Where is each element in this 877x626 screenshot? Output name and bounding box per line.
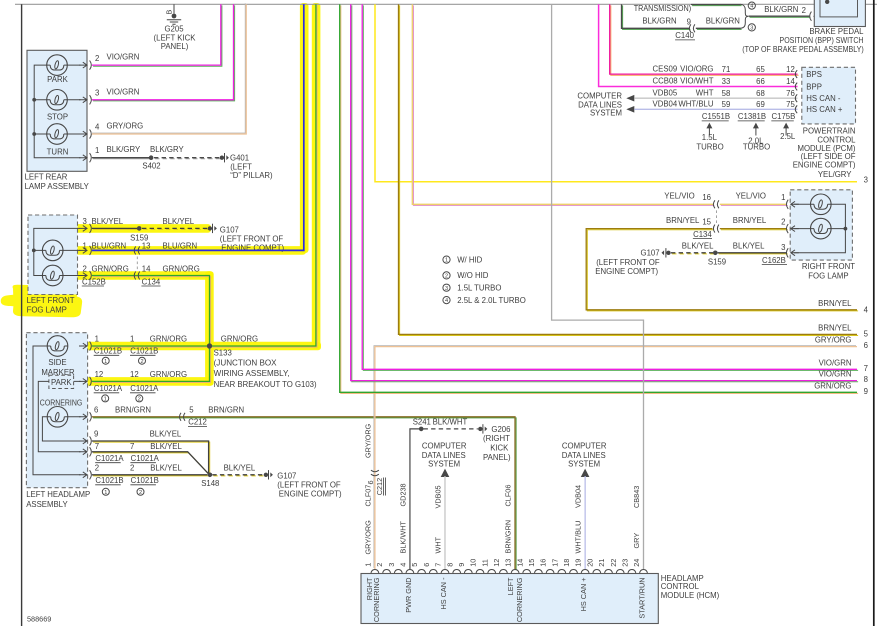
svg-text:4: 4 — [445, 298, 448, 304]
svg-text:59: 59 — [722, 100, 731, 109]
wire YEL/VIO to right fog pin 1 — [412, 4, 787, 205]
svg-text:ENGINE COMPT): ENGINE COMPT) — [793, 161, 856, 170]
C134 ladder dashes (right fog) — [716, 210, 718, 224]
svg-text:WHT: WHT — [696, 88, 714, 97]
svg-text:SYSTEM: SYSTEM — [568, 460, 600, 469]
svg-text:BLK/YEL: BLK/YEL — [150, 442, 182, 451]
svg-text:W/ HID: W/ HID — [457, 255, 482, 264]
svg-text:C1021A: C1021A — [95, 454, 124, 463]
svg-text:16: 16 — [539, 559, 548, 567]
svg-text:68: 68 — [756, 89, 765, 98]
svg-text:C1021B: C1021B — [131, 476, 159, 485]
svg-text:1: 1 — [364, 563, 373, 567]
wire WHT/BLU HCM pin 19 — [584, 476, 586, 569]
svg-text:2: 2 — [130, 464, 134, 473]
svg-text:YEL/GRY: YEL/GRY — [818, 170, 852, 179]
svg-text:VIO/GRN: VIO/GRN — [819, 358, 852, 367]
svg-text:BRN/YEL: BRN/YEL — [818, 324, 852, 333]
left border line — [21, 4, 23, 626]
highlighter band over GRN/ORG fog wire and S133 branches — [74, 3, 321, 386]
HCM pin numbers 1-24 — [364, 559, 642, 567]
svg-text:2.5L & 2.0L TURBO: 2.5L & 2.0L TURBO — [457, 296, 526, 305]
svg-text:1: 1 — [95, 335, 99, 344]
connector labels C1021A row7 — [95, 454, 159, 463]
note circle 3 at brace — [748, 24, 755, 32]
svg-text:BLK/GRY: BLK/GRY — [107, 145, 141, 154]
svg-text:GD238: GD238 — [399, 483, 408, 506]
svg-text:BRAKE PEDAL: BRAKE PEDAL — [809, 27, 864, 36]
arrow 2.5L — [780, 123, 796, 142]
svg-text:S402: S402 — [142, 161, 160, 170]
connector labels C1021A row12 — [94, 384, 159, 393]
svg-text:C1021B: C1021B — [95, 476, 123, 485]
svg-text:6: 6 — [94, 406, 98, 415]
inline connector C134 on BRN/YEL row — [693, 225, 719, 239]
svg-text:VDB05: VDB05 — [653, 88, 678, 97]
left rear lamp assembly box — [27, 50, 87, 171]
svg-text:S133: S133 — [214, 348, 232, 357]
junction dots inside rear lamp — [32, 98, 36, 102]
svg-text:SYSTEM: SYSTEM — [590, 109, 622, 118]
wire BLK/YEL dashed G107 to S159 (right) — [672, 253, 714, 255]
wire 8 VIO/GRN — [351, 4, 868, 384]
svg-text:VDB04: VDB04 — [653, 100, 678, 109]
svg-text:BLK/YEL: BLK/YEL — [224, 464, 256, 473]
svg-text:4: 4 — [864, 306, 869, 315]
splice S402 — [142, 155, 160, 170]
right border line — [873, 0, 875, 626]
svg-text:G107: G107 — [277, 471, 296, 480]
svg-text:C1021B: C1021B — [94, 347, 122, 356]
bulb fog lower — [42, 265, 63, 286]
svg-text:ASSEMBLY: ASSEMBLY — [26, 500, 68, 509]
svg-text:C1021A: C1021A — [130, 384, 159, 393]
wire BLU/GRN fog pin 1/13 up to top — [83, 4, 304, 250]
svg-text:FOG LAMP: FOG LAMP — [808, 272, 848, 281]
splice S159 — [130, 226, 148, 242]
powertrain control module box — [802, 67, 856, 124]
svg-text:2: 2 — [83, 265, 87, 274]
svg-text:1.5L TURBO: 1.5L TURBO — [457, 283, 501, 292]
wire BLK/GRY dashed S402 to G401 — [150, 145, 221, 159]
top border line — [15, 3, 877, 5]
svg-text:BPS: BPS — [806, 70, 822, 79]
svg-text:PWR GND: PWR GND — [404, 578, 413, 613]
svg-text:BLK/GRY: BLK/GRY — [150, 145, 184, 154]
svg-text:WIRING ASSEMBLY,: WIRING ASSEMBLY, — [214, 369, 290, 378]
internal ground wire of rear lamp — [34, 65, 80, 158]
svg-text:MODULE (HCM): MODULE (HCM) — [661, 591, 720, 600]
wire BLK/YEL headlamp pin 7 to S148 — [92, 442, 210, 476]
svg-text:588669: 588669 — [27, 615, 51, 624]
left headlamp assembly box — [26, 333, 87, 488]
svg-text:13: 13 — [142, 242, 151, 251]
svg-text:BLK/YEL: BLK/YEL — [150, 464, 182, 473]
svg-text:8: 8 — [445, 563, 454, 567]
svg-text:12: 12 — [95, 370, 104, 379]
inline connector C212 on BRN/GRN row — [180, 413, 208, 427]
ground G107 (left front of engine compt, lower) — [264, 470, 342, 499]
svg-text:VDB04: VDB04 — [574, 485, 583, 508]
svg-text:(LEFT: (LEFT — [230, 162, 252, 171]
note 3 1.5L TURBO — [443, 283, 502, 292]
svg-text:13: 13 — [504, 559, 513, 567]
svg-text:G107: G107 — [641, 249, 660, 258]
svg-text:GRY/ORG: GRY/ORG — [364, 423, 373, 458]
svg-text:2.5L: 2.5L — [780, 132, 796, 141]
svg-text:BRN/GRN: BRN/GRN — [115, 406, 151, 415]
svg-text:BLU/GRN: BLU/GRN — [163, 242, 198, 251]
svg-text:LEFT REAR: LEFT REAR — [25, 173, 68, 182]
svg-text:TURBO: TURBO — [743, 143, 770, 152]
wire BLK/GRN brace to BPP switch pin 2 — [749, 5, 811, 17]
wire BLK/GRN top branch to brace — [692, 5, 742, 7]
svg-text:2: 2 — [445, 274, 448, 280]
highlighter band over BLK/YEL fog ground wire — [74, 224, 211, 233]
HCM pin sockets 1-24 — [371, 570, 647, 574]
brake pedal position switch box — [814, 0, 865, 27]
wire BLK/YEL headlamp pin 2 to S148 — [92, 464, 209, 476]
svg-text:VIO/GRN: VIO/GRN — [107, 87, 140, 96]
svg-text:VIO/WHT: VIO/WHT — [680, 77, 714, 86]
svg-text:11: 11 — [480, 559, 489, 567]
bulb right fog lower — [811, 218, 832, 239]
note circles 1 and 2 (row 2) — [102, 488, 144, 496]
wire 5 BRN/YEL — [399, 4, 869, 338]
wire 4 BRN/YEL right fog feed — [586, 229, 868, 315]
svg-text:9: 9 — [94, 430, 98, 439]
svg-text:YEL/VIO: YEL/VIO — [664, 192, 694, 201]
ground G205 (left kick panel) — [154, 4, 197, 51]
svg-text:C1551B: C1551B — [702, 112, 730, 121]
svg-text:22: 22 — [609, 559, 618, 567]
svg-text:C1021B: C1021B — [130, 347, 158, 356]
svg-text:BLK/WHT: BLK/WHT — [399, 521, 408, 554]
bulb PARK (rear) — [47, 55, 69, 84]
svg-text:POSITION (BPP) SWITCH: POSITION (BPP) SWITCH — [780, 36, 864, 45]
note 4 2.5L and 2.0L TURBO — [443, 296, 526, 305]
wire VIO/GRN rear park pin 2 — [92, 4, 222, 66]
computer data lines arrow (WHT/BLU) — [626, 106, 634, 113]
svg-text:ENGINE COMPT): ENGINE COMPT) — [595, 267, 658, 276]
svg-text:GRN/ORG: GRN/ORG — [163, 265, 200, 274]
svg-text:G401: G401 — [230, 154, 249, 163]
svg-text:CONTROL: CONTROL — [661, 582, 700, 591]
svg-text:C212: C212 — [375, 478, 384, 495]
svg-text:BPP: BPP — [806, 82, 822, 91]
svg-text:(JUNCTION BOX: (JUNCTION BOX — [214, 359, 278, 368]
wire 3 YEL/GRY — [375, 4, 868, 184]
svg-text:3: 3 — [387, 563, 396, 567]
svg-text:BLK/YEL: BLK/YEL — [682, 242, 714, 251]
svg-text:C152B: C152B — [82, 277, 106, 286]
svg-text:“D” PILLAR): “D” PILLAR) — [230, 171, 273, 180]
svg-text:CORNERING: CORNERING — [40, 399, 83, 408]
svg-text:TURN: TURN — [47, 147, 69, 156]
svg-text:12: 12 — [786, 65, 795, 74]
wire GRN/ORG fog pin 2/14 down to S133 — [83, 265, 211, 345]
svg-text:BLU/GRN: BLU/GRN — [92, 242, 127, 251]
arrow 2.0L TURBO — [743, 123, 770, 152]
svg-text:1: 1 — [104, 359, 107, 365]
svg-text:1: 1 — [95, 146, 99, 155]
svg-text:BRN/YEL: BRN/YEL — [666, 216, 700, 225]
svg-text:S148: S148 — [201, 479, 219, 488]
svg-text:STOP: STOP — [47, 113, 68, 122]
svg-text:GRY: GRY — [632, 533, 641, 549]
svg-text:9: 9 — [864, 387, 868, 396]
headlamp pin sockets — [79, 341, 91, 350]
svg-text:C1021A: C1021A — [94, 384, 123, 393]
svg-text:GRY/ORG: GRY/ORG — [107, 122, 144, 131]
bulb right fog upper — [811, 194, 832, 215]
svg-text:3: 3 — [781, 243, 785, 252]
splice S133 and junction box labels — [207, 343, 317, 389]
svg-text:1: 1 — [104, 490, 107, 496]
wire GRN/ORG headlamp pin 1 row through S133 up to top — [92, 4, 317, 347]
svg-text:C134: C134 — [693, 230, 712, 239]
internal wires of left fog lamp — [34, 228, 81, 275]
svg-text:75: 75 — [786, 100, 795, 109]
connector label C162B — [762, 256, 787, 265]
connector label C175B — [771, 112, 795, 121]
HCM name label — [661, 574, 720, 600]
svg-text:FOG LAMP: FOG LAMP — [27, 306, 67, 315]
svg-text:2: 2 — [375, 563, 384, 567]
inline connector C134 on GRN/ORG row — [134, 272, 140, 280]
svg-text:CCB08: CCB08 — [653, 77, 678, 86]
svg-text:GRY/ORG: GRY/ORG — [364, 520, 373, 555]
svg-text:6: 6 — [366, 480, 375, 484]
left front fog lamp box — [28, 215, 78, 295]
svg-text:VIO/ORG: VIO/ORG — [680, 64, 713, 73]
svg-text:BLK/YEL: BLK/YEL — [92, 217, 124, 226]
wire BRN/YEL to right fog pin 2 (joins wire 4) — [666, 216, 788, 230]
svg-text:C212: C212 — [188, 418, 207, 427]
svg-text:20: 20 — [585, 559, 594, 567]
wire WHT VDB05 to PCM HS CAN - — [634, 88, 797, 98]
wire VIO/GRN rear stop pin 3 — [92, 4, 235, 101]
wire BLK/YEL S159 to right fog pin 3 — [682, 242, 788, 254]
computer data lines system (HS CAN +) — [562, 441, 607, 477]
note circles 1 and 2 (row 12) — [102, 395, 143, 403]
svg-text:1: 1 — [83, 242, 87, 251]
svg-text:(RIGHT: (RIGHT — [483, 434, 510, 443]
svg-text:CORNERING: CORNERING — [515, 577, 524, 622]
bulb STOP (rear) — [47, 90, 68, 122]
wire BLK/WHT HCM pin 4 to S241 — [410, 429, 421, 569]
svg-text:58: 58 — [722, 89, 731, 98]
ground G107 (left front of engine compt) — [208, 224, 285, 253]
svg-text:GRY/ORG: GRY/ORG — [815, 335, 852, 344]
svg-text:2: 2 — [95, 464, 99, 473]
svg-text:GRN/ORG: GRN/ORG — [814, 381, 851, 390]
inline connector C212 on GRY/ORG vertical — [366, 470, 386, 495]
note circle 4 at brace — [748, 2, 755, 10]
svg-text:1: 1 — [104, 397, 107, 403]
BPP switch labels — [742, 27, 864, 54]
headlamp control module box — [361, 574, 658, 624]
svg-text:BRN/YEL: BRN/YEL — [733, 216, 767, 225]
svg-text:NEAR BREAKOUT TO G103): NEAR BREAKOUT TO G103) — [214, 380, 317, 389]
svg-text:BLK/YEL: BLK/YEL — [163, 217, 195, 226]
wire BLK/GRN from transmission via C140 to brace — [622, 4, 742, 29]
svg-text:C162B: C162B — [762, 256, 786, 265]
svg-text:CORNERING: CORNERING — [372, 577, 381, 622]
svg-text:HS CAN +: HS CAN + — [579, 578, 588, 612]
svg-text:C175B: C175B — [772, 112, 796, 121]
svg-text:BLK/WHT: BLK/WHT — [433, 418, 468, 427]
C134 ladder dashes — [136, 257, 138, 271]
svg-text:2: 2 — [781, 217, 785, 226]
svg-text:GRN/ORG: GRN/ORG — [92, 265, 129, 274]
connector label C1381B — [738, 112, 766, 121]
svg-text:BLK/YEL: BLK/YEL — [150, 430, 182, 439]
svg-text:BRN/GRN: BRN/GRN — [504, 520, 513, 554]
connector label C1551B — [702, 112, 730, 121]
svg-text:COMPUTER: COMPUTER — [577, 91, 622, 100]
svg-text:LEFT: LEFT — [506, 577, 515, 595]
svg-text:SIDE: SIDE — [48, 358, 66, 367]
HCM internal pin labels — [365, 577, 646, 622]
highlighter blob over LEFT FRONT FOG LAMP label — [1, 285, 82, 318]
right front fog lamp box — [790, 190, 852, 260]
svg-text:6: 6 — [422, 563, 431, 567]
svg-text:4: 4 — [399, 563, 408, 567]
svg-text:CB843: CB843 — [632, 486, 641, 508]
svg-text:4: 4 — [750, 4, 753, 10]
svg-text:G206: G206 — [491, 425, 510, 434]
svg-text:BLK/GRN: BLK/GRN — [642, 17, 676, 26]
splice S148 — [201, 473, 219, 489]
bulb fog upper — [42, 240, 63, 261]
svg-text:S159: S159 — [708, 258, 726, 267]
wire GRY start/run from top to HCM pin 24 — [552, 4, 644, 569]
svg-text:ENGINE COMPT): ENGINE COMPT) — [279, 490, 342, 499]
svg-text:W/O HID: W/O HID — [457, 271, 489, 280]
svg-text:18: 18 — [562, 559, 571, 567]
wire BLK/YEL dashed S159 to G107 — [142, 217, 209, 230]
svg-text:LEFT HEADLAMP: LEFT HEADLAMP — [26, 490, 90, 499]
svg-text:WHT: WHT — [434, 536, 443, 553]
wire BLK/YEL fog pin 3 to S159 — [83, 217, 141, 230]
svg-text:HS CAN -: HS CAN - — [806, 94, 841, 103]
svg-text:1: 1 — [445, 258, 448, 264]
svg-text:HS CAN +: HS CAN + — [806, 105, 843, 114]
svg-text:VIO/GRN: VIO/GRN — [819, 370, 852, 379]
svg-text:POWERTRAIN: POWERTRAIN — [803, 126, 856, 135]
svg-text:12: 12 — [492, 559, 501, 567]
svg-text:(LEFT KICK: (LEFT KICK — [154, 33, 197, 42]
svg-text:SYSTEM: SYSTEM — [428, 460, 460, 469]
svg-text:8: 8 — [864, 375, 868, 384]
svg-text:COMPUTER: COMPUTER — [422, 441, 467, 450]
PCM name label — [793, 126, 856, 169]
svg-text:B: B — [165, 10, 174, 15]
splice S241 — [413, 418, 468, 432]
connector labels C1021B row1 — [94, 347, 159, 356]
svg-text:5: 5 — [410, 563, 419, 567]
note 1 W/ HID — [443, 255, 483, 264]
svg-text:14: 14 — [515, 559, 524, 567]
svg-text:3: 3 — [83, 217, 87, 226]
BPP switch pin socket — [810, 12, 822, 21]
svg-text:(LEFT FRONT OF: (LEFT FRONT OF — [277, 481, 341, 490]
wire GRY/ORG rear turn pin 4 — [91, 3, 246, 134]
svg-text:2: 2 — [802, 6, 806, 15]
svg-text:PANEL): PANEL) — [483, 453, 511, 462]
svg-text:GRN/ORG: GRN/ORG — [150, 335, 187, 344]
wire VIO/ORG CES09 to PCM BPS — [610, 4, 799, 75]
inline connector C134 on BLU/GRN row — [134, 246, 140, 254]
svg-text:WHT/BLU: WHT/BLU — [678, 100, 713, 109]
computer data lines system label (top) — [577, 91, 622, 117]
right fog pin sockets — [786, 200, 798, 209]
brace joining circuits 4 and 3 — [741, 4, 749, 28]
inline connector C140 — [675, 24, 695, 40]
PARK dashed function box — [49, 375, 74, 388]
splice S133 dot overlay — [207, 343, 212, 348]
svg-text:5: 5 — [864, 330, 869, 339]
svg-text:TURBO: TURBO — [696, 143, 723, 152]
svg-text:3: 3 — [750, 26, 753, 32]
arrow 1.5L TURBO — [696, 123, 723, 152]
svg-text:14: 14 — [786, 77, 795, 86]
note 2 W/O HID — [443, 271, 489, 280]
svg-text:LAMP ASSEMBLY: LAMP ASSEMBLY — [25, 182, 90, 191]
svg-text:66: 66 — [756, 77, 765, 86]
PCM pin labels — [806, 70, 843, 114]
svg-text:71: 71 — [722, 65, 731, 74]
svg-text:(TOP OF BRAKE PEDAL ASSEMBLY): (TOP OF BRAKE PEDAL ASSEMBLY) — [742, 45, 864, 54]
svg-text:24: 24 — [632, 559, 641, 567]
ground G107 (right, left front of engine compt) — [595, 248, 670, 276]
svg-text:TRANSMISSION): TRANSMISSION) — [634, 4, 692, 13]
svg-text:PARK: PARK — [47, 75, 68, 84]
svg-text:2: 2 — [140, 359, 143, 365]
svg-text:10: 10 — [469, 559, 478, 567]
wire BLK/YEL headlamp pin 9 to S148 — [92, 430, 210, 475]
computer data lines arrow (WHT) — [626, 95, 634, 102]
svg-text:15: 15 — [702, 217, 711, 226]
svg-text:S241: S241 — [413, 418, 431, 427]
bulb CORNERING — [40, 399, 83, 427]
svg-text:WHT/BLU: WHT/BLU — [574, 521, 583, 554]
svg-text:76: 76 — [786, 89, 795, 98]
svg-text:(LEFT FRONT OF: (LEFT FRONT OF — [596, 258, 660, 267]
svg-text:3: 3 — [445, 286, 448, 292]
svg-text:1: 1 — [781, 193, 785, 202]
wire 7 VIO/GRN — [362, 4, 868, 373]
rear lamp pin sockets — [79, 61, 91, 70]
svg-text:14: 14 — [142, 265, 151, 274]
fog lamp pin sockets — [79, 224, 91, 233]
svg-text:C140: C140 — [675, 31, 694, 40]
svg-text:HS CAN -: HS CAN - — [439, 577, 448, 610]
internal wire PARK to pin 12 and pin 7 rows — [38, 381, 80, 451]
svg-text:BLK/GRN: BLK/GRN — [764, 5, 798, 14]
svg-text:12: 12 — [130, 370, 139, 379]
svg-text:23: 23 — [621, 559, 630, 567]
svg-text:1.5L: 1.5L — [702, 133, 718, 142]
wire BLK/WHT dashed S241 to G206 — [424, 428, 478, 430]
svg-text:C1021A: C1021A — [131, 454, 160, 463]
svg-text:69: 69 — [756, 100, 765, 109]
svg-text:7: 7 — [130, 442, 134, 451]
wire 9 GRN/ORG — [340, 4, 868, 396]
svg-text:19: 19 — [574, 559, 583, 567]
svg-text:BLK/YEL: BLK/YEL — [733, 242, 765, 251]
